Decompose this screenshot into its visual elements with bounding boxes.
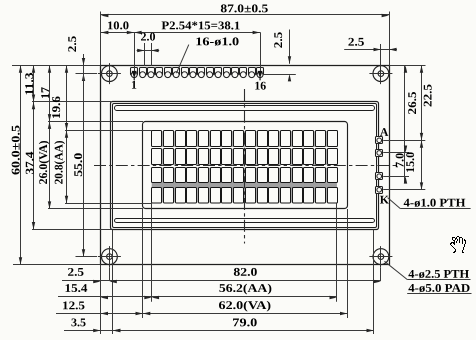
- vertical centerline: [244, 89, 246, 244]
- svg-text:60.0±0.5: 60.0±0.5: [9, 125, 23, 175]
- dim P2.54*15=38.1: [134, 18, 260, 34]
- svg-text:62.0(VA): 62.0(VA): [219, 298, 272, 312]
- dim 10.0: [101, 18, 135, 34]
- viewing area: [143, 122, 348, 209]
- dim 12.5: [56, 298, 143, 315]
- dim 79.0: [113, 315, 374, 332]
- horizontal centerline: [94, 165, 399, 167]
- dim 2.0: [137, 29, 160, 52]
- character grid 16x4: [151, 131, 337, 204]
- dim 15.0: [403, 140, 423, 190]
- svg-text:56.2(AA): 56.2(AA): [219, 281, 272, 295]
- dim 55.0: [71, 74, 85, 257]
- dim 56.2(AA): [152, 281, 337, 299]
- bezel bottom slot: [115, 219, 375, 223]
- svg-text:15.4: 15.4: [64, 281, 87, 295]
- pin 1 label: [131, 78, 137, 92]
- backlight pads A/K: [376, 137, 383, 194]
- dim 11.3: [22, 65, 36, 102]
- label K: [380, 192, 390, 206]
- pin 16 marker: [258, 71, 263, 80]
- dim 26.0(VA): [36, 122, 51, 209]
- dim 62.0(VA): [143, 298, 348, 315]
- pin 1 marker: [132, 71, 137, 80]
- mounting hole bottom-right: [369, 246, 392, 267]
- dim 2.5 top right: [344, 35, 397, 52]
- display bezel frame: [111, 102, 379, 230]
- svg-text:2.5: 2.5: [271, 32, 285, 49]
- svg-text:2.5: 2.5: [67, 265, 84, 279]
- svg-text:4-ø1.0 PTH: 4-ø1.0 PTH: [403, 196, 465, 210]
- svg-text:26.0(VA): 26.0(VA): [36, 140, 50, 184]
- dim 2.5 bottom left: [62, 265, 109, 283]
- svg-text:4-ø2.5 PTH: 4-ø2.5 PTH: [408, 267, 469, 281]
- svg-text:55.0: 55.0: [71, 153, 85, 177]
- svg-text:2.5: 2.5: [65, 36, 79, 53]
- svg-text:11.3: 11.3: [22, 72, 36, 95]
- svg-text:A: A: [380, 125, 389, 139]
- svg-text:10.0: 10.0: [107, 18, 129, 32]
- hand cursor icon: [450, 236, 466, 253]
- bezel top slot: [115, 106, 375, 111]
- svg-text:P2.54*15=38.1: P2.54*15=38.1: [161, 18, 240, 32]
- svg-text:20.8(AA): 20.8(AA): [51, 140, 65, 184]
- dim 26.5: [404, 65, 419, 152]
- dim 87.0±0.5: [101, 1, 390, 17]
- dim 2.5 top left: [65, 36, 85, 81]
- svg-text:37.4: 37.4: [22, 151, 36, 174]
- label A: [380, 125, 389, 139]
- mounting hole top-right: [369, 63, 392, 84]
- dim 19.6: [49, 65, 68, 130]
- svg-text:79.0: 79.0: [232, 315, 257, 329]
- pin 16 label: [254, 78, 266, 92]
- svg-text:4-ø5.0 PAD: 4-ø5.0 PAD: [408, 281, 470, 295]
- svg-text:3.5: 3.5: [71, 315, 86, 329]
- dim 37.4: [22, 102, 36, 229]
- dim 17: [38, 65, 52, 121]
- svg-text:2.5: 2.5: [348, 35, 365, 49]
- svg-text:1: 1: [131, 78, 137, 92]
- dim 20.8(AA): [51, 130, 68, 203]
- dim 2.5 top middle: [271, 30, 291, 82]
- svg-text:19.6: 19.6: [49, 96, 63, 119]
- callout 4-Ø1.0 PTH: [388, 196, 471, 210]
- mounting hole top-left: [98, 63, 121, 84]
- dim 22.5: [420, 65, 435, 140]
- pin header 16 pins: [131, 68, 264, 78]
- PCB outline: [101, 66, 390, 265]
- svg-text:26.5: 26.5: [405, 91, 419, 114]
- svg-text:K: K: [380, 192, 390, 206]
- svg-text:12.5: 12.5: [62, 298, 85, 312]
- dim 15.4: [58, 281, 152, 299]
- svg-text:22.5: 22.5: [421, 84, 435, 107]
- callout 4-Ø2.5 PTH / 4-Ø5.0 PAD: [385, 261, 472, 295]
- svg-text:87.0±0.5: 87.0±0.5: [220, 1, 268, 15]
- svg-text:16-ø1.0: 16-ø1.0: [195, 34, 239, 48]
- svg-text:15.0: 15.0: [403, 152, 417, 173]
- dim 60.0±0.5: [9, 65, 23, 264]
- dim 7.0: [393, 153, 408, 184]
- svg-text:16: 16: [254, 78, 266, 92]
- svg-text:82.0: 82.0: [233, 265, 257, 279]
- dim 82.0: [109, 265, 381, 283]
- svg-text:2.0: 2.0: [140, 29, 155, 43]
- mounting hole bottom-left: [98, 246, 121, 267]
- callout 16-Ø1.0: [176, 34, 239, 73]
- dim 3.5: [64, 315, 120, 332]
